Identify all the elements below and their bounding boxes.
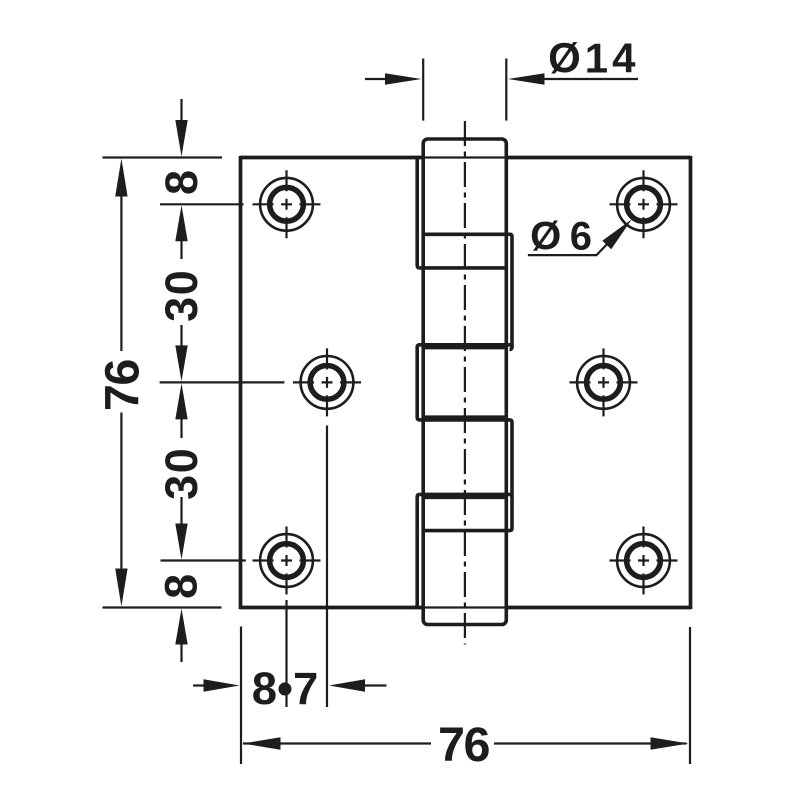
svg-text:30: 30 bbox=[156, 269, 207, 322]
svg-text:76: 76 bbox=[438, 718, 489, 772]
svg-text:8: 8 bbox=[156, 574, 207, 599]
svg-text:76: 76 bbox=[96, 360, 150, 411]
svg-text:8: 8 bbox=[156, 170, 207, 195]
svg-text:8•7: 8•7 bbox=[252, 663, 319, 714]
svg-text:Ø6: Ø6 bbox=[530, 215, 600, 259]
svg-text:30: 30 bbox=[156, 447, 207, 500]
svg-text:Ø14: Ø14 bbox=[548, 35, 639, 82]
